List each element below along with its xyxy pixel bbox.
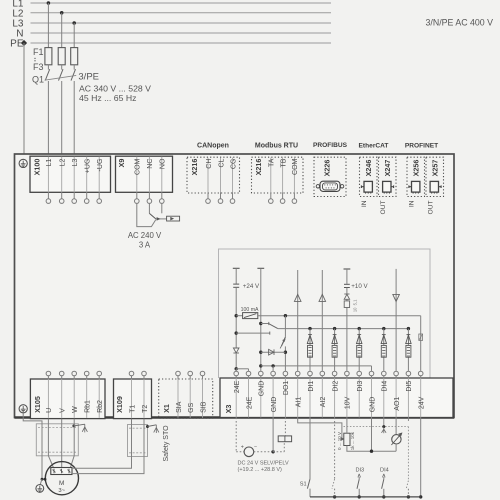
wire switch bus [310, 496, 421, 498]
shielded thermistor cable [128, 425, 148, 457]
label +10 V [351, 283, 368, 290]
supply rail GND [257, 268, 264, 371]
fuse F1 [45, 48, 52, 65]
svg-text:DO1: DO1 [283, 381, 290, 396]
digital input DI2 optocoupler [332, 327, 337, 371]
internal fuse 100 mA [236, 307, 259, 318]
supply rail +10 V [344, 269, 351, 371]
supply selector contact [236, 322, 278, 335]
connector X246 EtherCAT IN [360, 157, 378, 196]
svg-text:U: U [46, 408, 53, 413]
svg-text:5,1: 5,1 [352, 299, 357, 305]
wire V to motor [61, 419, 63, 468]
terminal block X105 motor (U V W Rb1 Rb2) [30, 371, 105, 418]
svg-text:S1: S1 [300, 481, 307, 487]
switch DI5 (dashed) [406, 418, 410, 499]
label AC 340 V ... 528 V [79, 84, 151, 94]
analog input AI1 buffer [294, 270, 301, 371]
connector X257 PROFINET OUT [426, 157, 444, 196]
label PROFIBUS [313, 142, 348, 149]
svg-text:Modbus RTU: Modbus RTU [255, 143, 298, 150]
svg-text:X216: X216 [254, 159, 263, 176]
connector X256 PROFINET IN [407, 157, 425, 196]
svg-text:Rb2: Rb2 [97, 400, 104, 413]
wire 24E to second terminal [236, 369, 248, 371]
svg-text:3~: 3~ [58, 488, 65, 494]
wire GND to pot/meter [370, 418, 373, 453]
svg-text:SIB: SIB [200, 401, 207, 413]
label mains rating 3/N/PE AC 400 V [426, 17, 494, 27]
svg-text:COM: COM [292, 158, 299, 175]
wire AI1 to potentiometer wiper [298, 418, 344, 441]
label EtherCAT [359, 143, 389, 150]
switch Q1 pole 2 [59, 65, 64, 156]
shield bond (thermistor cable) [146, 425, 159, 433]
wire NO stub [161, 203, 163, 213]
svg-text:Rb1: Rb1 [85, 400, 92, 413]
svg-text:F1: F1 [33, 47, 44, 57]
svg-text:X256: X256 [411, 160, 420, 177]
DC 24 V supply (external) [236, 418, 284, 457]
net L2 [12, 8, 331, 19]
net PE [10, 39, 331, 50]
svg-text:DI1: DI1 [308, 381, 315, 392]
svg-text:AC 340 V ... 528 V: AC 340 V ... 528 V [79, 84, 151, 94]
digital input DI3 optocoupler [357, 327, 362, 371]
ground PE terminal (top) [19, 159, 27, 167]
svg-text:1k ... 10k: 1k ... 10k [350, 431, 355, 450]
wire 24V to switch bus [419, 418, 422, 499]
svg-text:X109: X109 [115, 396, 124, 413]
svg-text:AI2: AI2 [320, 397, 327, 408]
connector X1 Safety STO (SIA GS SIB) [159, 371, 213, 418]
svg-text:X257: X257 [430, 160, 439, 177]
svg-text:DI2: DI2 [332, 381, 339, 392]
switch DI2 (dashed) [332, 418, 336, 499]
label OUT (PROFINET) [428, 201, 435, 215]
svg-text:10V: 10V [345, 396, 352, 409]
label CANopen [197, 143, 229, 150]
control circuit frame [219, 249, 431, 378]
svg-text:3/PE: 3/PE [78, 72, 99, 83]
svg-text:(+19.2 ... +28.8 V): (+19.2 ... +28.8 V) [238, 467, 283, 473]
wire tap L3 + junction [72, 21, 76, 47]
svg-text:L2: L2 [60, 159, 67, 167]
wire T2 [72, 419, 144, 474]
switch DI3 [355, 468, 364, 499]
fuse F2 [58, 48, 65, 65]
svg-text:-UG: -UG [97, 159, 104, 172]
svg-text:X9: X9 [117, 159, 126, 168]
svg-text:COM: COM [135, 158, 142, 175]
fuse F1...F3 labels [33, 47, 44, 72]
svg-text:PE: PE [10, 39, 24, 50]
svg-text:GS: GS [188, 402, 195, 412]
wire GND link [261, 364, 372, 371]
wire motor PE [23, 413, 42, 479]
label IN (PROFINET) [409, 200, 416, 207]
svg-text:DI3: DI3 [357, 381, 364, 392]
svg-text:24E: 24E [234, 380, 241, 393]
analog input AI2 buffer [319, 270, 326, 371]
component on 24V drop [419, 334, 423, 340]
svg-text:IN: IN [409, 200, 416, 207]
svg-text:GND: GND [369, 397, 376, 413]
svg-text:OUT: OUT [428, 201, 435, 215]
svg-text:OUT: OUT [380, 201, 387, 215]
label +24 V [243, 283, 260, 290]
svg-text:CH: CH [206, 159, 213, 169]
svg-text:45 Hz ... 65 Hz: 45 Hz ... 65 Hz [79, 93, 136, 103]
svg-text:DI3: DI3 [355, 468, 364, 474]
wire T1 [72, 419, 132, 469]
switch Q1 pole 1 [45, 65, 50, 156]
label 45 Hz ... 65 Hz [79, 93, 136, 103]
svg-text:0 ... 10 V: 0 ... 10 V [337, 432, 342, 450]
diode on 24E rail [233, 348, 239, 371]
wire tap L2 + junction [60, 11, 64, 48]
svg-text:IN: IN [361, 200, 368, 207]
svg-text:CANopen: CANopen [197, 143, 229, 150]
terminal block X100 (L1 L2 L3 +UG -UG) [30, 156, 111, 203]
wire tap L1 + junction [47, 1, 51, 47]
svg-text:PROFIBUS: PROFIBUS [313, 142, 348, 149]
svg-text:X247: X247 [383, 160, 392, 177]
svg-text:+UG: +UG [85, 159, 92, 174]
connector X216 Modbus (TA TB COM) [252, 157, 304, 203]
relay contact K1 (DO1) [280, 316, 287, 371]
terminal block X109 (T1 T2) [114, 371, 152, 418]
svg-text:+10 V: +10 V [351, 283, 368, 290]
switch Q1 pole 3 [71, 65, 76, 156]
label DC 24 V SELV/PELV [238, 461, 289, 467]
svg-text:X226: X226 [323, 160, 332, 177]
label IN (EtherCAT) [361, 200, 368, 207]
svg-text:SIA: SIA [176, 401, 183, 413]
Q1 linkage [45, 75, 77, 80]
label AC 240 V / 3 A [128, 231, 162, 250]
svg-text:DC 24 V SELV/PELV: DC 24 V SELV/PELV [238, 461, 289, 467]
shield bond (motor cable) [72, 424, 87, 432]
switch Q1 label [32, 75, 44, 85]
svg-text:AC 240 V: AC 240 V [128, 231, 162, 240]
digital input DI4 optocoupler [381, 327, 386, 371]
connector X216 CANopen (CH CL CG) [187, 157, 240, 203]
fuse F3 [71, 48, 78, 65]
svg-text:DI4: DI4 [380, 468, 389, 474]
svg-text:+: + [241, 444, 244, 450]
svg-text:10: 10 [352, 307, 357, 312]
label OUT (EtherCAT) [380, 201, 387, 215]
svg-text:Q1: Q1 [32, 75, 44, 85]
svg-text:L1: L1 [46, 159, 53, 167]
cable shield (analog) [344, 418, 409, 434]
label (+19.2 ... +28.8 V) [238, 467, 283, 473]
net L1 [12, 0, 331, 10]
label 3/PE [78, 72, 99, 83]
svg-text:AI1: AI1 [296, 397, 303, 408]
svg-text:−: − [254, 444, 257, 450]
wire GND2 external [272, 418, 274, 452]
meter on AO1 [391, 418, 402, 452]
svg-text:CG: CG [230, 159, 237, 170]
motor PE junction [40, 478, 46, 485]
svg-text:AO1: AO1 [394, 397, 401, 411]
wire W to motor [70, 419, 74, 468]
svg-text:X1: X1 [162, 404, 171, 413]
svg-text:Safety STO: Safety STO [163, 425, 170, 462]
svg-text:24E: 24E [246, 396, 253, 409]
terminal block X9 relay output (COM NC NO) [116, 156, 173, 203]
wire COM [137, 203, 156, 226]
shielded motor cable [36, 424, 78, 456]
svg-text:DI5: DI5 [406, 381, 413, 392]
svg-text:X246: X246 [364, 160, 373, 177]
relay load [156, 216, 180, 221]
svg-text:T2: T2 [142, 405, 149, 413]
digital input DI5 optocoupler [406, 327, 411, 371]
switch S1 (DI1) [300, 418, 310, 497]
inverter device enclosure [15, 154, 455, 418]
svg-text:GND: GND [271, 397, 278, 413]
svg-text:3/N/PE AC 400 V: 3/N/PE AC 400 V [426, 17, 494, 27]
potentiometer 0...10V / 1k...10k [337, 418, 396, 452]
ground PE (motor) [36, 485, 44, 493]
label PROFINET [405, 143, 438, 150]
svg-text:NO: NO [160, 158, 167, 169]
svg-text:NC: NC [147, 159, 154, 169]
connector X226 PROFIBUS [314, 157, 346, 196]
svg-text:+24 V: +24 V [243, 283, 260, 290]
svg-text:T1: T1 [129, 405, 136, 413]
analog output AO1 buffer [393, 269, 400, 371]
svg-text:GND: GND [259, 381, 266, 397]
svg-text:V: V [60, 408, 67, 413]
svg-text:24V: 24V [419, 396, 426, 409]
svg-text:X100: X100 [32, 159, 41, 176]
zener 5,1 / resistor 10 on 10V rail [344, 294, 357, 312]
wire U to motor [48, 419, 53, 468]
connector X247 EtherCAT OUT [379, 157, 397, 196]
relay coil K (on DO1) [278, 418, 291, 442]
svg-text:W: W [72, 406, 79, 413]
terminal strip X3 [220, 371, 453, 417]
svg-text:X3: X3 [224, 405, 233, 414]
ground PE terminal (bottom) [19, 405, 27, 413]
node PE tap [22, 41, 27, 160]
net L3 [12, 19, 331, 30]
svg-text:X216: X216 [190, 159, 199, 176]
svg-text:TB: TB [280, 158, 287, 167]
svg-text:X105: X105 [33, 396, 42, 413]
svg-text:3 A: 3 A [139, 241, 151, 250]
svg-text:DI4: DI4 [382, 381, 389, 392]
motor terminal box [51, 468, 72, 475]
relay changeover contact (X9) [149, 203, 155, 219]
svg-text:PROFINET: PROFINET [405, 143, 438, 150]
switch DI4 [380, 468, 389, 499]
svg-text:L3: L3 [72, 159, 79, 167]
motor M 3~ [45, 462, 78, 495]
freewheel diode DO1 [261, 349, 286, 355]
label Modbus RTU [255, 143, 298, 150]
digital input DI1 optocoupler [307, 327, 312, 371]
svg-text:F3: F3 [33, 62, 44, 72]
wire DI bus [278, 328, 409, 330]
svg-text:M: M [59, 480, 64, 487]
svg-text:EtherCAT: EtherCAT [359, 143, 389, 150]
label Safety STO [163, 425, 170, 462]
svg-text:TA: TA [269, 158, 276, 167]
supply rail +24 V (24E) [233, 268, 240, 348]
net N [16, 29, 331, 40]
wire +24V bus [258, 314, 421, 371]
svg-text:CL: CL [218, 158, 225, 167]
